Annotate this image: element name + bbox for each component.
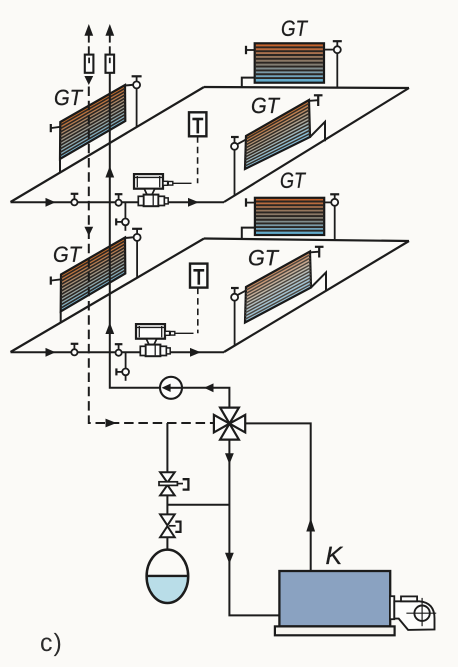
- radiator valve (T) floor1 top-right: [246, 46, 255, 54]
- wire: branch from expansion line to boiler return drop: [167, 504, 229, 506]
- up arrow at top of return riser: [84, 24, 93, 55]
- balancing valve (circle) floor1 right radiator: [231, 137, 246, 195]
- motorized control valve floor2: [136, 324, 175, 356]
- boiler plinth: [275, 626, 395, 635]
- down arrow on return riser (upper): [84, 76, 93, 85]
- floor 1 slab right diagonal: [224, 88, 409, 202]
- label GT floor1 top-right: [282, 20, 308, 36]
- down arrow on return riser (floor 2): [84, 227, 93, 236]
- down arrow above boiler return: [225, 553, 234, 564]
- radiator GT floor1 left (slanted): [60, 85, 125, 159]
- flow arrow on dashed return line to mixing valve: [106, 419, 117, 428]
- down arrow below mixing valve: [225, 453, 234, 464]
- shut-off valve (circle) floor1 pipe right: [115, 194, 123, 206]
- wire: floor2 right radiator return elbow: [311, 272, 326, 291]
- floor 1 slab top edge: [204, 87, 409, 88]
- wire: floor2 mid-right radiator bottom-left pipe: [242, 228, 255, 240]
- label GT floor1 left: [55, 90, 83, 106]
- wire: floor2 left radiator top link to vent valve: [125, 236, 133, 239]
- floor 2 slab right diagonal: [224, 241, 409, 352]
- thermostat sensor box T floor2: [190, 264, 207, 288]
- balancing valve on expansion line: [159, 472, 188, 495]
- radiator valve (T) floor1 right top: [310, 95, 323, 106]
- radiator GT floor2 left (slanted): [61, 238, 126, 312]
- shut-off valve on supply riser (rectangle): [106, 55, 115, 73]
- motorized control valve floor1: [134, 174, 173, 206]
- radiator valve (T) floor2 mid-right: [246, 198, 255, 206]
- label GT floor1 right: [252, 98, 280, 114]
- radiator valve (T) floor2 right top: [311, 247, 324, 258]
- floor 2 slab top edge: [204, 239, 409, 242]
- burner unit: [390, 596, 436, 630]
- radiator valve (T) floor2 left: [51, 277, 61, 285]
- shut-off valve (circle) floor2 pipe left: [71, 344, 79, 356]
- radiator valve (T) floor1 left: [51, 124, 61, 132]
- wire: dashed capillary link floor2: [197, 288, 199, 334]
- vent valve (circle) floor2 left radiator: [132, 229, 142, 278]
- four-way mixing valve: [214, 408, 245, 440]
- shut-off valve (circle) floor1 pipe left: [71, 194, 79, 206]
- label GT floor2 mid-right: [281, 172, 306, 188]
- wire: floor 1 horizontal supply pipe: [11, 201, 225, 203]
- label GT floor2 right: [249, 250, 279, 266]
- label c): [41, 633, 60, 656]
- floor 2 slab left diagonal: [11, 239, 205, 353]
- capillary tube floor1: [173, 182, 192, 184]
- wire: dashed capillary link floor1: [197, 136, 199, 183]
- radiator GT floor1 right (slanted): [245, 100, 310, 169]
- circulation pump P: [160, 377, 182, 399]
- wire: supply riser (solid): [110, 73, 160, 388]
- flow arrow toward pump: [204, 383, 214, 392]
- flow arrow after valve floor2: [190, 348, 201, 357]
- label K: [326, 547, 343, 564]
- wire: between valves on expansion line: [166, 495, 168, 514]
- flow arrow on floor 2 pipe: [46, 348, 56, 357]
- shut-off valve (circle) floor2 pipe right: [115, 344, 123, 356]
- flow arrow on floor 1 pipe: [46, 198, 56, 207]
- drain valve (circle) floor2 below pipe: [116, 352, 129, 381]
- thermostat sensor box T floor1: [189, 112, 206, 136]
- label GT floor2 left: [54, 246, 82, 262]
- up arrow on supply riser floor 2: [105, 323, 114, 335]
- wire: expansion line from dashed return: [166, 423, 168, 472]
- wire: floor1 left radiator top link to vent valve: [125, 84, 133, 87]
- wire: valve to expansion tank: [166, 537, 168, 550]
- up arrow on boiler supply: [306, 518, 315, 532]
- capillary tube floor2: [175, 332, 194, 334]
- vent valve (circle) floor1 top-right radiator: [324, 41, 342, 88]
- vent valve (circle) floor2 mid-right radiator: [324, 194, 339, 240]
- wire: return riser (dashed): [89, 87, 214, 424]
- boiler K: [279, 571, 390, 626]
- wire: floor2 left radiator bottom drop: [60, 312, 62, 324]
- up arrow on supply riser floor 1: [105, 166, 114, 178]
- wire: boiler supply riser to mixing valve: [246, 423, 311, 571]
- radiator GT floor1 top-right (horizontal): [255, 43, 324, 82]
- wire: floor 2 horizontal supply pipe: [11, 351, 225, 353]
- wire: floor1 top-right radiator bottom-left pipe: [242, 78, 255, 88]
- expansion tank: [146, 550, 189, 604]
- balancing valve (circle) floor2 right radiator: [231, 288, 246, 346]
- wire: floor1 left radiator bottom drop: [59, 159, 61, 173]
- radiator GT floor2 right (slanted): [245, 252, 311, 323]
- flow arrow after valve floor1: [188, 198, 199, 207]
- up arrow at top of supply riser: [105, 24, 114, 55]
- shut-off valve on expansion tank line: [160, 514, 180, 537]
- floor 1 slab left diagonal: [11, 87, 205, 202]
- wire: floor1 right radiator return elbow: [310, 122, 325, 141]
- shut-off valve on return riser (rectangle): [85, 55, 94, 73]
- wire: pump discharge to mixing valve: [182, 388, 229, 407]
- drain valve (circle) floor1 below pipe: [116, 202, 129, 231]
- wire: mixing valve down to boiler return: [229, 440, 279, 616]
- vent valve (circle) floor1 left radiator: [132, 76, 142, 126]
- radiator GT floor2 mid-right (horizontal): [255, 198, 324, 235]
